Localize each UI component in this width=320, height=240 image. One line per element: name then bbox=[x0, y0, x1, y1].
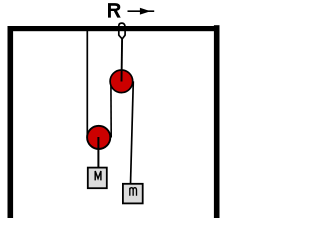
hook loop over top bar bbox=[119, 23, 125, 35]
mass m box bbox=[123, 184, 143, 204]
frame left post bbox=[8, 26, 14, 218]
hook converge left bbox=[119, 35, 122, 39]
string hook to upper pulley axle bbox=[121, 38, 124, 82]
hook converge right bbox=[122, 35, 125, 39]
mass m label bbox=[130, 188, 137, 196]
arrow shaft bbox=[128, 10, 155, 12]
upper pulley bbox=[110, 70, 133, 93]
arrow head bbox=[140, 8, 151, 15]
string upper pulley right down to mass m bbox=[131, 81, 134, 184]
string lower pulley axle to mass M bbox=[97, 137, 99, 168]
lower pulley bbox=[87, 126, 110, 149]
mass M label bbox=[95, 171, 101, 180]
mass M box bbox=[88, 168, 107, 189]
string anchor from top bar to lower pulley left bbox=[86, 30, 88, 138]
frame top bar bbox=[8, 26, 220, 31]
label R bbox=[108, 3, 121, 18]
frame right post bbox=[214, 25, 220, 218]
string lower pulley right to upper pulley left bbox=[110, 81, 112, 137]
